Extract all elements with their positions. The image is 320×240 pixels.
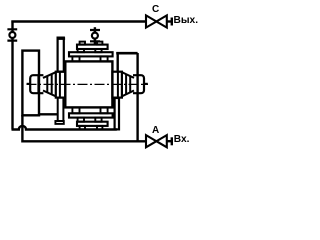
base bar left: [39, 113, 58, 115]
bottom flange blocks upper: [72, 107, 79, 113]
terminal tick C: [171, 18, 173, 26]
wire left loop vertical: [11, 21, 13, 130]
centerline axis: [27, 83, 149, 85]
compressor casing: [65, 61, 112, 107]
valve A: [146, 135, 167, 147]
wire valve C outlet: [167, 20, 172, 22]
coupling knob left: [30, 75, 43, 93]
shaft stub right: [144, 83, 148, 85]
top flange blocks lower: [72, 56, 79, 61]
knob left divider: [37, 75, 39, 93]
nozzle bottom-left foot: [55, 121, 63, 124]
right wall inner ring: [117, 72, 119, 98]
bottom flange bar2: [77, 122, 108, 126]
wire suction line L2: [22, 115, 146, 141]
wire bottom loop line with hop: [12, 126, 117, 130]
coupling knob right: [133, 75, 144, 93]
casing right side wall: [112, 72, 122, 98]
wire top discharge pipe: [11, 20, 146, 22]
label Vh: [174, 134, 190, 145]
bottom flange feet: [80, 126, 85, 129]
shaft stub left: [27, 83, 31, 85]
label Vyh: [174, 15, 199, 26]
terminal tick A: [171, 137, 173, 145]
top flange blocks mid: [78, 49, 84, 52]
box top-right: [116, 52, 137, 55]
gauge G2 on casing top: [90, 27, 100, 44]
valve C: [146, 15, 167, 27]
wire valve A outlet: [167, 140, 172, 142]
top flange tier1: [77, 45, 108, 49]
gauge G1 on left loop: [7, 29, 17, 40]
top flange feet: [80, 42, 85, 45]
bottom flange blocks mid: [78, 118, 84, 122]
shaft cone left: [43, 72, 56, 96]
bottom flange bar1: [69, 113, 113, 117]
nozzle bottom-left: [58, 98, 64, 121]
top flange tier2: [69, 52, 113, 56]
pillar left: [22, 51, 39, 116]
node bottom-right riser: [115, 98, 119, 129]
shaft cone right: [122, 72, 134, 96]
casing left side wall: [56, 72, 66, 98]
label A: [152, 125, 159, 136]
label C: [152, 4, 159, 15]
left wall inner ring: [59, 72, 61, 98]
nozzle top-left cap bar: [57, 37, 65, 40]
wire right long vertical to suction: [136, 53, 138, 141]
nozzle top-left: [58, 38, 64, 72]
